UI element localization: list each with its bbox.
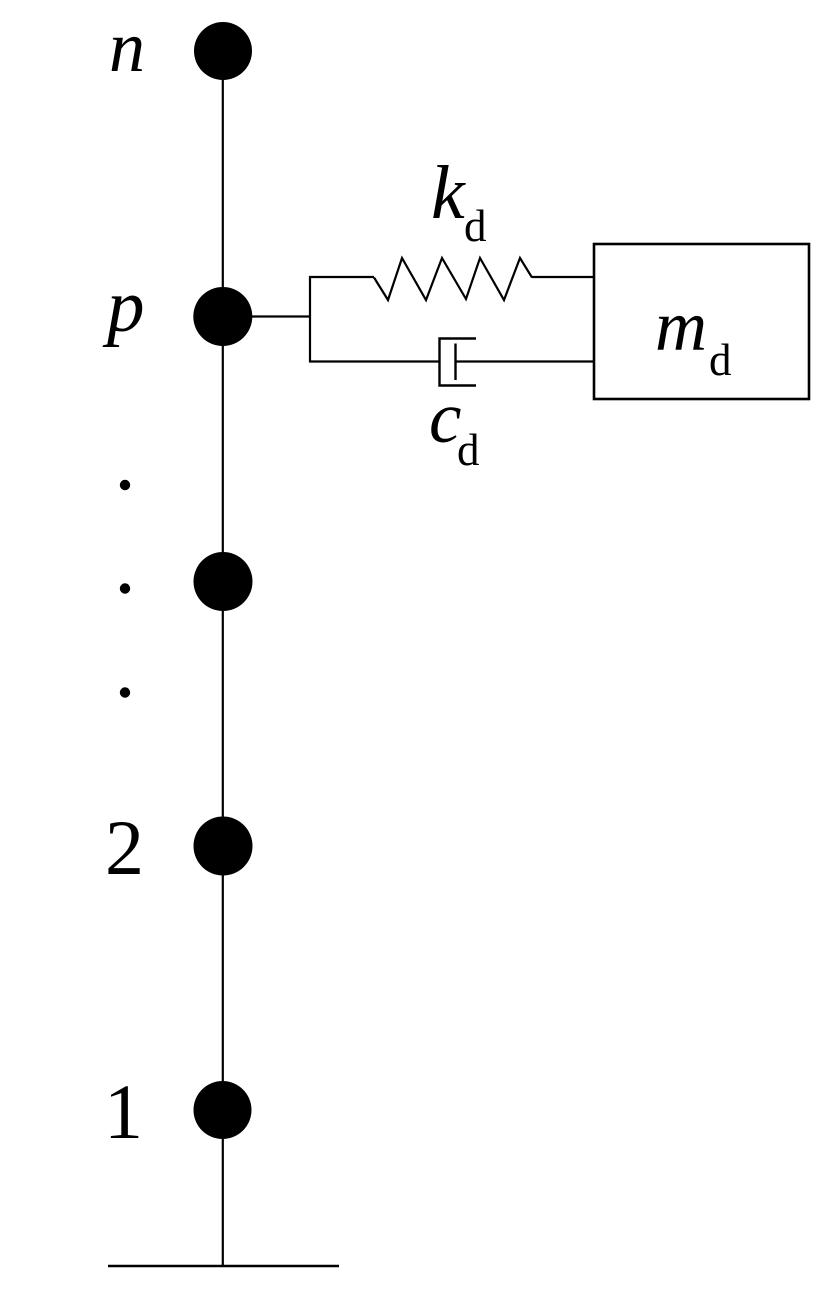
node n <box>194 22 252 80</box>
wire: spring lead left <box>309 276 374 278</box>
svg-text:n: n <box>109 7 145 87</box>
ground <box>108 1265 339 1267</box>
node p <box>193 287 252 346</box>
node (intermediate) <box>194 552 253 611</box>
svg-text:p: p <box>102 265 145 348</box>
wire: bracket vertical <box>309 276 311 362</box>
damper c_d cup <box>440 339 477 386</box>
wire: main vertical structural member <box>222 51 224 1266</box>
ellipsis dot a <box>120 480 130 490</box>
node 2 <box>194 817 253 876</box>
svg-text:2: 2 <box>105 804 144 891</box>
svg-text:k: k <box>431 151 466 235</box>
wire: spring lead right <box>532 276 595 278</box>
svg-text:d: d <box>464 201 487 251</box>
ellipsis dot c <box>120 687 130 697</box>
svg-text:1: 1 <box>104 1068 143 1155</box>
mass m_d box <box>594 244 809 399</box>
wire: damper lead right <box>456 360 596 362</box>
svg-text:m: m <box>655 286 707 366</box>
svg-text:d: d <box>709 335 732 385</box>
spring k_d <box>374 258 532 300</box>
svg-text:d: d <box>457 425 480 475</box>
node 1 <box>194 1081 252 1139</box>
wire: stub from node p to bracket <box>251 315 310 317</box>
damper c_d piston <box>454 344 456 381</box>
ellipsis dot b <box>120 583 130 593</box>
wire: damper lead left <box>309 360 440 362</box>
